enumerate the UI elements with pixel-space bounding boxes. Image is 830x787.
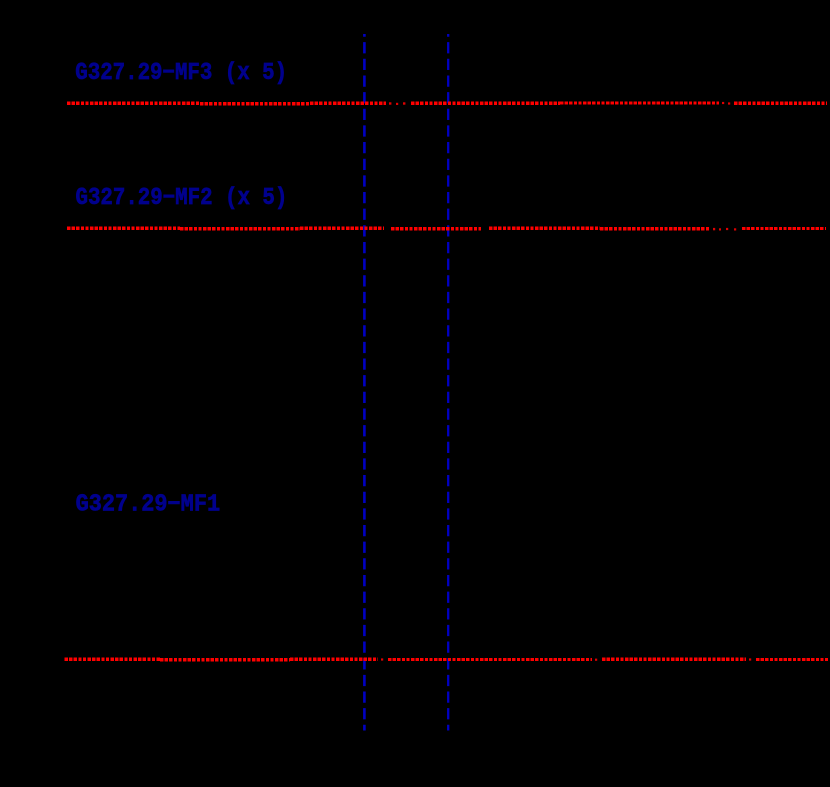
velocity marker line A (blue dashed vertical) <box>363 34 366 731</box>
baseline MF1 sparse dots in line-gaps <box>381 658 751 660</box>
velocity marker line B (blue dashed vertical) <box>447 34 449 731</box>
svg-text:G327.29−MF2 (x 5): G327.29−MF2 (x 5) <box>76 185 288 212</box>
baseline MF3 sparse dots in line-gap 2 <box>722 102 730 105</box>
baseline MF3 sparse dots in line-gap 1 <box>389 102 405 105</box>
baseline MF2 sparse dots in line-gap <box>713 228 736 231</box>
baseline MF3 (red dotted) <box>67 101 827 105</box>
baseline MF1 (red dotted) <box>65 658 829 662</box>
svg-text:G327.29−MF1: G327.29−MF1 <box>76 492 221 519</box>
baseline MF2 (red dotted) <box>67 227 826 231</box>
svg-text:G327.29−MF3 (x 5): G327.29−MF3 (x 5) <box>75 60 287 87</box>
